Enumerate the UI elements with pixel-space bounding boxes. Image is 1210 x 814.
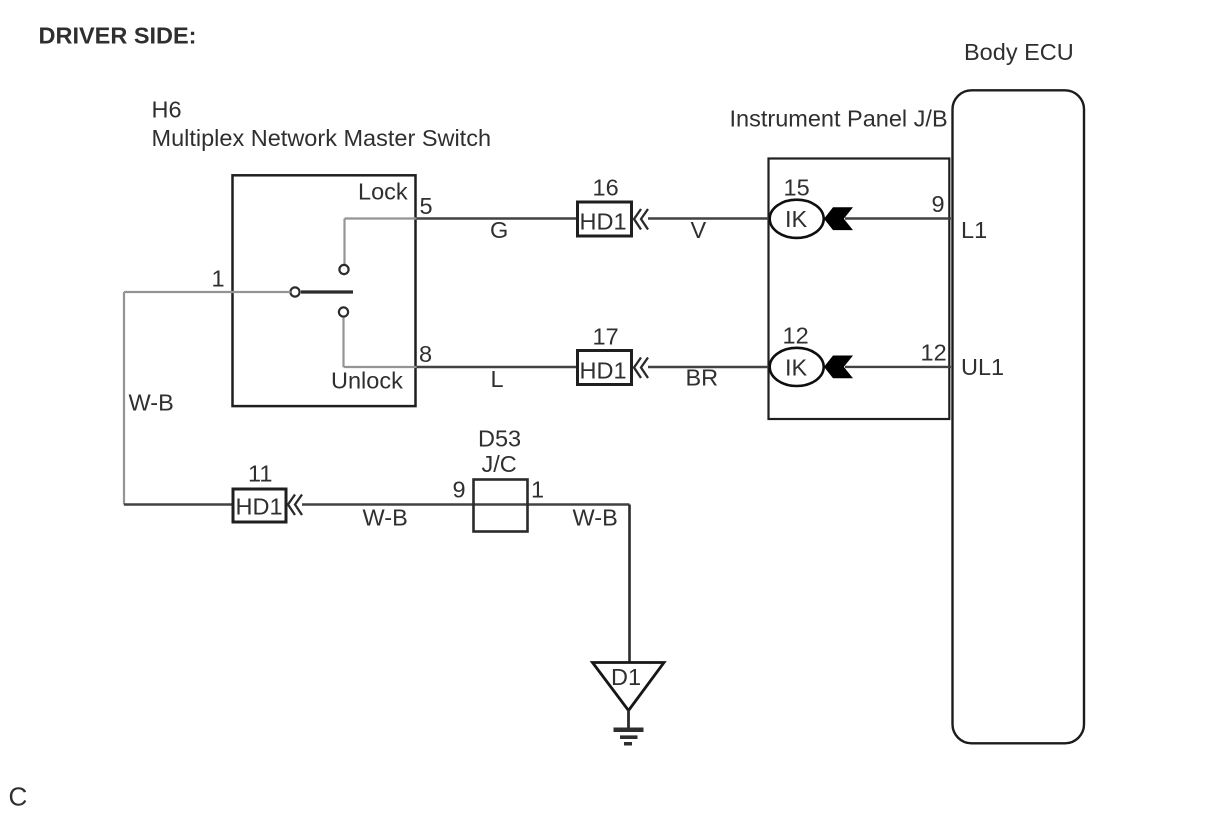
- wire W-B left vertical: [123, 292, 125, 505]
- svg-text:Instrument Panel J/B: Instrument Panel J/B: [730, 106, 948, 132]
- ground connector D1 triangle: [593, 663, 665, 711]
- wire V from HD1 to IK: [648, 217, 770, 219]
- wire BR from HD1 to IK: [648, 366, 770, 368]
- arrow row1 black flag: [824, 207, 853, 230]
- svg-text:IK: IK: [785, 206, 808, 232]
- connector HD1 row1 chevrons: [634, 209, 648, 230]
- svg-text:G: G: [490, 217, 508, 243]
- svg-text:W-B: W-B: [363, 505, 408, 531]
- wire W-B vertical drop to ground: [628, 505, 631, 664]
- svg-text:16: 16: [593, 175, 619, 201]
- connector HD1 row3 box: [233, 489, 286, 522]
- wire triangle apex to ground symbol: [627, 710, 630, 729]
- connector HD1 row3 chevrons: [288, 495, 302, 516]
- svg-text:17: 17: [593, 324, 619, 350]
- connector HD1 row2 box: [578, 351, 632, 385]
- junction block Instrument Panel J/B outline: [769, 159, 950, 420]
- arrow row2 black flag: [824, 356, 853, 379]
- svg-text:11: 11: [248, 461, 272, 487]
- switch contact lock terminal circle: [339, 265, 348, 274]
- svg-text:5: 5: [420, 193, 433, 219]
- switch pole lever arm: [301, 290, 353, 293]
- wire W-B from HD1 through J/C to corner: [302, 503, 630, 505]
- svg-text:W-B: W-B: [573, 505, 618, 531]
- svg-text:DRIVER SIDE:: DRIVER SIDE:: [39, 23, 197, 49]
- svg-text:Body ECU: Body ECU: [964, 39, 1074, 65]
- switch H6 box outline: [233, 175, 416, 406]
- svg-text:D53: D53: [478, 426, 521, 452]
- svg-text:9: 9: [453, 477, 466, 503]
- svg-text:H6: H6: [152, 97, 182, 123]
- connector HD1 row2 chevrons: [634, 358, 648, 379]
- ground symbol bars: [614, 728, 644, 746]
- wire G from switch to HD1: [417, 217, 577, 219]
- svg-text:L: L: [491, 366, 504, 392]
- switch pole terminal circle: [290, 287, 299, 296]
- junction connector D53 J/C box: [474, 480, 528, 532]
- svg-text:L1: L1: [961, 217, 987, 243]
- wire lock branch vertical inside switch: [343, 219, 345, 265]
- svg-text:W-B: W-B: [129, 390, 174, 416]
- wire unlock branch vertical inside switch: [342, 318, 344, 368]
- svg-text:HD1: HD1: [236, 494, 283, 520]
- svg-text:1: 1: [531, 477, 544, 503]
- svg-text:12: 12: [783, 323, 809, 349]
- svg-text:D1: D1: [611, 664, 641, 690]
- svg-text:C: C: [9, 782, 28, 812]
- ECU U1 Body ECU outline: [953, 90, 1085, 743]
- svg-text:Lock: Lock: [358, 179, 408, 205]
- svg-text:HD1: HD1: [580, 358, 627, 384]
- wire IK to ECU pin 9: [845, 217, 951, 219]
- svg-text:J/C: J/C: [482, 451, 517, 477]
- wire lock branch horizontal inside switch: [345, 217, 417, 219]
- wire pin1 to pole: [124, 291, 291, 293]
- svg-text:UL1: UL1: [961, 354, 1004, 380]
- svg-text:8: 8: [419, 341, 432, 367]
- svg-text:BR: BR: [686, 365, 719, 391]
- wire W-B bottom left segment: [124, 503, 233, 505]
- svg-text:Multiplex Network Master Switc: Multiplex Network Master Switch: [152, 125, 492, 151]
- svg-text:Unlock: Unlock: [331, 368, 403, 394]
- wire IK to ECU pin 12: [845, 366, 951, 368]
- connector HD1 row1 box: [578, 202, 632, 236]
- svg-text:V: V: [691, 217, 707, 243]
- svg-text:15: 15: [784, 175, 810, 201]
- connector IK row2 oval: [770, 348, 824, 386]
- svg-text:HD1: HD1: [580, 209, 627, 235]
- connector IK row1 oval: [770, 200, 824, 238]
- wire L from switch to HD1: [417, 366, 577, 368]
- switch contact unlock terminal circle: [339, 307, 348, 316]
- svg-text:1: 1: [212, 266, 225, 292]
- wire unlock branch horizontal inside switch: [344, 366, 417, 368]
- svg-text:IK: IK: [785, 355, 808, 381]
- svg-text:9: 9: [932, 191, 945, 217]
- svg-text:12: 12: [921, 340, 947, 366]
